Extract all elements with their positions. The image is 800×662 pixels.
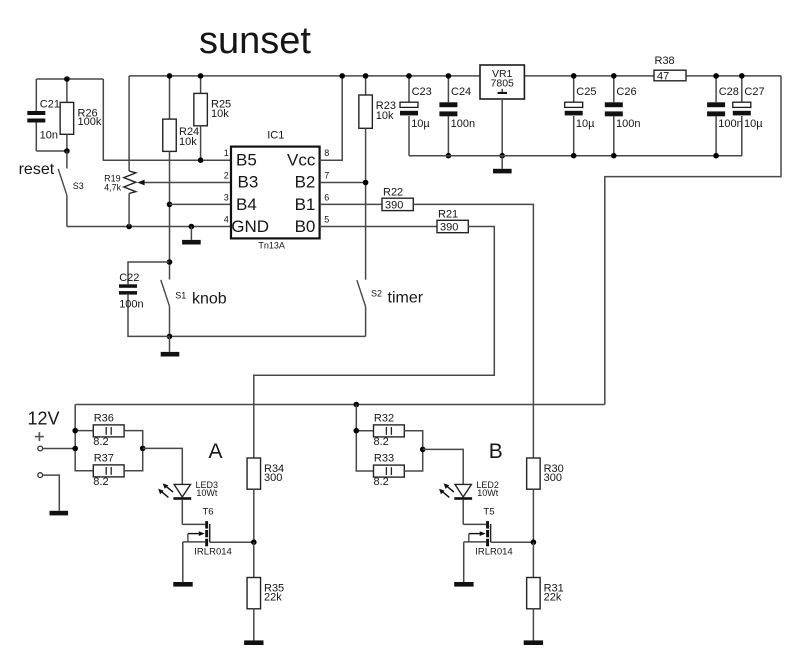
svg-text:8.2: 8.2 — [374, 436, 389, 448]
capacitor C22 — [128, 262, 170, 284]
ground — [169, 336, 171, 352]
svg-text:B1: B1 — [295, 195, 316, 214]
svg-text:IRLR014: IRLR014 — [194, 546, 232, 557]
svg-text:12V: 12V — [28, 409, 60, 429]
transistor T6 IRLR014 — [182, 523, 205, 525]
svg-text:7: 7 — [324, 171, 329, 181]
node C26 bottom — [611, 153, 617, 159]
svg-text:GND: GND — [231, 217, 269, 236]
svg-text:Vcc: Vcc — [287, 150, 316, 169]
node Vcc riser — [339, 73, 345, 79]
wire — [75, 405, 93, 471]
node R25 bottom — [198, 157, 204, 163]
node R24 top — [167, 73, 173, 79]
node C21-R26 top — [64, 76, 70, 82]
wire — [404, 431, 422, 450]
wire — [413, 204, 533, 458]
node C24 bottom — [446, 153, 452, 159]
wire — [254, 227, 494, 459]
resistor R24 — [169, 76, 171, 119]
svg-text:C21: C21 — [40, 98, 60, 110]
node B pair output — [420, 447, 426, 453]
node S1 bottom — [167, 334, 173, 340]
node R23 top — [363, 73, 369, 79]
svg-text:10k: 10k — [211, 108, 229, 120]
capacitor C27 — [741, 76, 743, 102]
svg-text:22k: 22k — [544, 591, 562, 603]
resistor R31 — [532, 542, 534, 577]
svg-text:390: 390 — [440, 222, 458, 234]
svg-text:8.2: 8.2 — [93, 476, 108, 488]
node terminal join — [72, 446, 78, 452]
svg-text:T5: T5 — [483, 507, 494, 518]
svg-text:timer: timer — [388, 290, 424, 307]
wire — [253, 489, 255, 542]
svg-text:8.2: 8.2 — [93, 436, 108, 448]
node C25 top — [571, 73, 577, 79]
svg-text:R21: R21 — [438, 209, 458, 221]
svg-text:10n: 10n — [40, 130, 58, 142]
svg-text:5: 5 — [324, 215, 329, 225]
resistor R33 — [374, 465, 405, 477]
svg-text:sunset: sunset — [199, 20, 311, 62]
svg-text:100n: 100n — [451, 118, 475, 130]
svg-text:10µ: 10µ — [411, 118, 430, 130]
wire — [67, 226, 231, 228]
svg-text:47: 47 — [657, 71, 669, 83]
svg-text:S3: S3 — [73, 181, 84, 191]
resistor R21 — [320, 226, 437, 228]
resistor R26 — [66, 79, 68, 102]
resistor R35 — [253, 542, 255, 577]
voltage regulator VR1 7805 — [480, 65, 524, 99]
resistor R38 — [654, 70, 686, 81]
capacitor C26 — [613, 76, 615, 102]
svg-text:B: B — [489, 440, 503, 463]
resistor R37 — [93, 465, 124, 477]
wire — [605, 76, 781, 405]
transistor T5 IRLR014 — [463, 523, 486, 525]
svg-text:10µ: 10µ — [744, 118, 763, 130]
wire — [409, 155, 742, 157]
svg-text:R38: R38 — [655, 55, 675, 67]
node R19 bottom — [126, 224, 132, 230]
node B2 junction — [363, 180, 369, 186]
svg-text:4,7k: 4,7k — [104, 182, 122, 192]
svg-text:reset: reset — [19, 161, 55, 178]
resistor R25 — [200, 76, 202, 94]
op-amp U1 IC1 Tn13A — [231, 147, 320, 239]
node T5 gate junction — [531, 539, 537, 545]
wire — [253, 609, 255, 641]
svg-text:Tn13A: Tn13A — [258, 241, 285, 251]
plus sign — [35, 436, 44, 438]
wire — [103, 79, 231, 160]
node C26 top — [611, 73, 617, 79]
switch S3 — [66, 151, 68, 169]
resistor R30 — [527, 458, 541, 489]
svg-text:22k: 22k — [264, 591, 282, 603]
node C27 top — [739, 73, 745, 79]
wire — [143, 448, 183, 484]
svg-text:8.2: 8.2 — [374, 476, 389, 488]
resistor R36 — [93, 425, 124, 437]
node R25 top — [198, 73, 204, 79]
wire — [144, 182, 231, 184]
wire — [170, 335, 366, 337]
capacitor C25 — [573, 76, 575, 102]
svg-text:300: 300 — [264, 472, 282, 484]
node A pair output — [140, 446, 146, 452]
wire — [129, 75, 480, 77]
LED3 — [174, 484, 190, 497]
svg-text:10Wt: 10Wt — [477, 488, 499, 498]
wire — [36, 78, 103, 80]
svg-text:10k: 10k — [376, 110, 394, 122]
svg-text:100n: 100n — [119, 299, 143, 311]
svg-text:100n: 100n — [616, 118, 640, 130]
node T6 gate junction — [251, 539, 257, 545]
capacitor C28 — [715, 76, 717, 102]
capacitor C23 — [408, 76, 410, 102]
wire — [124, 431, 143, 449]
wire — [75, 404, 605, 406]
svg-text:100k: 100k — [78, 116, 102, 128]
svg-text:B4: B4 — [236, 195, 257, 214]
resistor R23 — [365, 76, 367, 95]
terminal 12V+ — [38, 446, 43, 451]
potentiometer R19 — [128, 76, 130, 171]
node C28 top — [713, 73, 719, 79]
resistor R22 — [320, 203, 382, 205]
svg-text:B5: B5 — [236, 150, 257, 169]
svg-text:C23: C23 — [412, 86, 432, 98]
LED2 — [455, 484, 471, 497]
svg-text:B3: B3 — [238, 173, 259, 192]
ground — [244, 640, 263, 645]
node channel B supply — [354, 402, 360, 408]
svg-text:100n: 100n — [718, 118, 742, 130]
node C28 bottom — [713, 153, 719, 159]
svg-text:R33: R33 — [374, 453, 394, 465]
svg-text:R32: R32 — [374, 412, 394, 424]
wire — [532, 609, 534, 641]
wire — [320, 182, 366, 184]
svg-text:R22: R22 — [383, 187, 403, 199]
ground — [524, 640, 543, 645]
node C23 top — [406, 73, 412, 79]
svg-text:C22: C22 — [119, 272, 139, 284]
svg-text:2: 2 — [224, 171, 229, 181]
svg-text:T6: T6 — [203, 507, 214, 518]
node C25 bottom — [571, 153, 577, 159]
wire — [501, 99, 503, 156]
switch S1 — [169, 262, 171, 280]
node VR1 gnd — [499, 153, 505, 159]
wire — [423, 449, 464, 484]
node R36 lead — [72, 428, 78, 434]
svg-text:R37: R37 — [94, 452, 114, 464]
svg-text:B0: B0 — [295, 217, 316, 236]
svg-text:knob: knob — [192, 291, 227, 308]
svg-text:IC1: IC1 — [267, 130, 284, 142]
svg-text:4: 4 — [224, 215, 229, 225]
svg-text:S2: S2 — [371, 288, 382, 298]
svg-text:C27: C27 — [744, 86, 764, 98]
wire — [524, 75, 654, 77]
svg-text:R36: R36 — [94, 412, 114, 424]
wire — [356, 405, 373, 472]
svg-text:S1: S1 — [175, 290, 186, 300]
ground — [190, 227, 192, 240]
wire — [686, 75, 781, 77]
svg-text:10µ: 10µ — [576, 118, 595, 130]
ground — [501, 156, 503, 169]
svg-text:300: 300 — [544, 472, 562, 484]
svg-text:8: 8 — [324, 148, 329, 158]
svg-text:10Wt: 10Wt — [196, 488, 218, 498]
node S1 top — [167, 259, 173, 265]
resistor R32 — [374, 425, 405, 437]
svg-text:10k: 10k — [179, 136, 197, 148]
svg-text:A: A — [208, 440, 222, 463]
node gnd stub — [189, 224, 195, 230]
svg-text:C25: C25 — [576, 86, 596, 98]
wire — [320, 76, 343, 160]
switch S2 — [357, 280, 366, 306]
resistor R34 — [247, 458, 260, 489]
svg-text:7805: 7805 — [491, 78, 515, 90]
capacitor C24 — [447, 76, 449, 102]
capacitor C21 — [35, 79, 37, 111]
wire — [532, 489, 534, 542]
svg-text:B2: B2 — [295, 173, 316, 192]
svg-text:C24: C24 — [451, 86, 471, 98]
svg-text:C26: C26 — [616, 86, 636, 98]
svg-text:390: 390 — [385, 200, 403, 212]
svg-text:6: 6 — [324, 192, 329, 202]
ground — [50, 511, 69, 516]
svg-text:3: 3 — [224, 192, 229, 202]
terminal 12V- — [38, 473, 43, 478]
node C24 top — [446, 73, 452, 79]
svg-text:IRLR014: IRLR014 — [475, 546, 513, 557]
node R32 lead — [354, 428, 360, 434]
svg-text:C28: C28 — [719, 86, 739, 98]
node C21-R26 bottom — [64, 148, 70, 154]
node B4 junction — [167, 202, 173, 208]
svg-text:1: 1 — [224, 148, 229, 158]
wire — [170, 203, 232, 205]
